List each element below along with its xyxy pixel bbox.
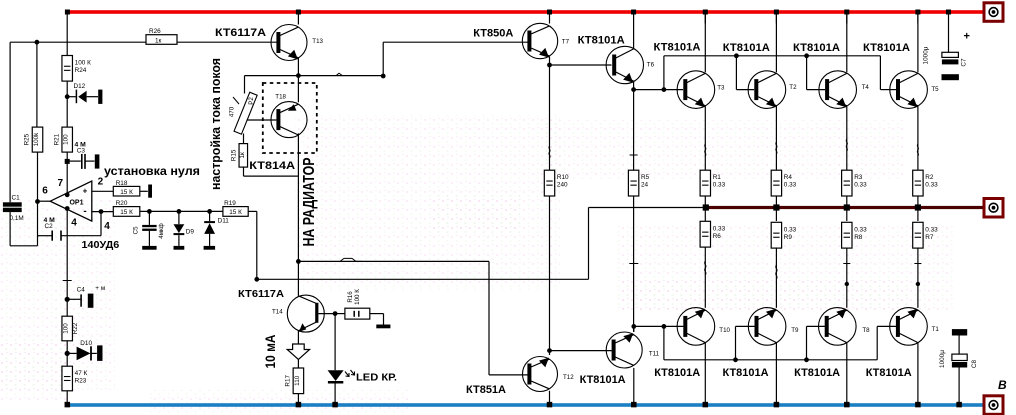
svg-text:R19: R19 [224, 200, 236, 207]
svg-text:24: 24 [641, 182, 649, 189]
svg-text:0.33: 0.33 [925, 226, 938, 233]
svg-text:R20: R20 [116, 200, 128, 207]
svg-text:D11: D11 [218, 218, 230, 225]
svg-text:R26: R26 [149, 28, 161, 35]
svg-text:Т3: Т3 [717, 85, 725, 92]
svg-text:-: - [83, 206, 86, 217]
svg-text:C4: C4 [77, 287, 86, 294]
svg-text:D9: D9 [186, 229, 195, 236]
svg-text:КТ8101А: КТ8101А [794, 367, 840, 379]
svg-text:КТ850А: КТ850А [473, 27, 513, 39]
svg-text:Т8: Т8 [862, 327, 870, 334]
svg-text:0.33: 0.33 [854, 182, 867, 189]
svg-text:15 К: 15 К [120, 189, 133, 196]
svg-text:6: 6 [42, 186, 48, 197]
svg-text:Т1: Т1 [932, 326, 940, 333]
svg-text:C1: C1 [12, 195, 21, 202]
svg-text:0.33: 0.33 [784, 182, 797, 189]
svg-text:LED КР.: LED КР. [356, 372, 397, 384]
svg-text:КТ6117А: КТ6117А [215, 27, 266, 39]
svg-text:0.33: 0.33 [925, 182, 938, 189]
svg-text:R16: R16 [347, 291, 354, 303]
svg-text:+: + [964, 31, 970, 43]
svg-text:1к: 1к [155, 37, 162, 44]
svg-text:С5: С5 [133, 226, 140, 234]
svg-text:7: 7 [58, 178, 64, 189]
svg-text:Т12: Т12 [563, 374, 574, 381]
svg-text:Т14: Т14 [272, 309, 283, 316]
svg-text:1к: 1к [239, 152, 246, 159]
svg-text:D12: D12 [74, 83, 86, 90]
svg-text:R17: R17 [285, 375, 292, 387]
svg-text:0.33: 0.33 [784, 226, 797, 233]
svg-text:R23: R23 [75, 378, 87, 385]
svg-text:4: 4 [71, 218, 77, 229]
svg-text:R15: R15 [230, 149, 237, 161]
svg-text:С3: С3 [77, 148, 86, 155]
svg-text:2: 2 [98, 177, 104, 188]
svg-text:R9: R9 [784, 234, 793, 241]
svg-text:КТ6117А: КТ6117А [238, 288, 284, 300]
svg-text:Т18: Т18 [275, 94, 286, 101]
svg-text:R21: R21 [53, 133, 60, 145]
svg-text:R3: R3 [854, 174, 863, 181]
svg-text:100k: 100k [33, 132, 40, 147]
svg-text:С7: С7 [961, 58, 968, 67]
svg-text:Т4: Т4 [862, 84, 870, 91]
svg-text:КТ8101А: КТ8101А [578, 35, 625, 47]
svg-text:КТ8101А: КТ8101А [580, 374, 626, 386]
svg-text:С8: С8 [971, 359, 978, 368]
svg-text:4мкф: 4мкф [158, 223, 165, 239]
svg-text:Т7: Т7 [562, 38, 570, 45]
svg-text:100: 100 [63, 134, 70, 145]
svg-text:R10: R10 [557, 174, 569, 181]
svg-text:R5: R5 [641, 174, 650, 181]
svg-text:D10: D10 [80, 340, 92, 347]
svg-text:470: 470 [229, 106, 236, 117]
svg-text:Р2: Р2 [248, 97, 255, 105]
svg-text:КТ8101А: КТ8101А [654, 367, 700, 379]
svg-text:100 К: 100 К [354, 289, 361, 305]
svg-text:Т5: Т5 [931, 86, 939, 93]
svg-text:Т10: Т10 [719, 327, 730, 334]
svg-text:R7: R7 [925, 234, 934, 241]
svg-text:Т2: Т2 [789, 84, 797, 91]
svg-text:R24: R24 [75, 67, 87, 74]
svg-text:КТ851А: КТ851А [466, 384, 506, 396]
svg-text:10 мА: 10 мА [263, 334, 278, 368]
svg-text:+: + [83, 186, 88, 195]
svg-text:R1: R1 [713, 174, 722, 181]
svg-text:НА РАДИАТОР: НА РАДИАТОР [301, 158, 318, 247]
svg-text:4: 4 [104, 221, 110, 232]
svg-text:0,1М: 0,1М [10, 215, 24, 222]
svg-text:Т6: Т6 [647, 62, 655, 69]
svg-text:В: В [998, 378, 1007, 392]
svg-text:R2: R2 [925, 174, 934, 181]
svg-text:КТ814А: КТ814А [249, 160, 295, 172]
svg-text:140УД6: 140УД6 [82, 239, 120, 251]
svg-text:OP1: OP1 [69, 200, 83, 207]
svg-text:R4: R4 [784, 174, 793, 181]
svg-text:Т11: Т11 [649, 350, 660, 357]
svg-text:КТ8101А: КТ8101А [863, 42, 910, 54]
svg-text:47 К: 47 К [75, 370, 88, 377]
svg-text:0.33: 0.33 [854, 226, 867, 233]
svg-text:R25: R25 [24, 133, 31, 145]
svg-text:15 К: 15 К [229, 209, 242, 216]
svg-text:1000μ: 1000μ [923, 46, 930, 64]
svg-text:С2: С2 [45, 223, 54, 230]
svg-text:КТ8101А: КТ8101А [866, 367, 912, 379]
svg-text:настройка тока покоя: настройка тока покоя [209, 58, 223, 190]
svg-text:R8: R8 [854, 234, 863, 241]
svg-text:1000μ: 1000μ [939, 350, 946, 368]
svg-text:Т9: Т9 [791, 327, 799, 334]
svg-text:КТ8101А: КТ8101А [723, 367, 769, 379]
svg-text:КТ8101А: КТ8101А [654, 41, 701, 53]
svg-text:КТ8101А: КТ8101А [793, 42, 840, 54]
svg-text:установка нуля: установка нуля [104, 166, 200, 178]
svg-text:100 К: 100 К [75, 60, 91, 67]
svg-text:0.33: 0.33 [713, 182, 726, 189]
svg-text:Т13: Т13 [312, 38, 323, 45]
svg-text:15 К: 15 К [120, 209, 133, 216]
svg-text:+ м: + м [95, 285, 105, 292]
svg-text:240: 240 [557, 182, 568, 189]
svg-text:110: 110 [294, 375, 301, 386]
svg-text:R22: R22 [72, 322, 79, 334]
svg-text:100: 100 [63, 323, 70, 334]
svg-text:КТ8101А: КТ8101А [723, 42, 770, 54]
svg-text:0.33: 0.33 [713, 225, 726, 232]
svg-text:R6: R6 [713, 233, 722, 240]
